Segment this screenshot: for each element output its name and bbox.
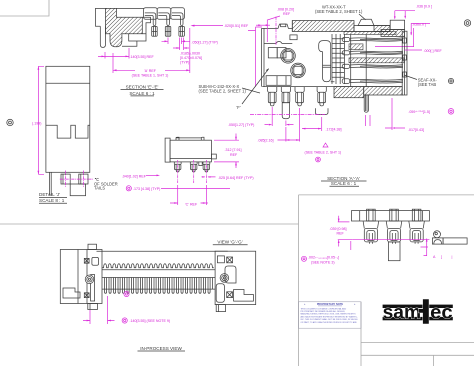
- svg-text:SCALE 6 : 1: SCALE 6 : 1: [129, 91, 155, 96]
- svg-text:.008 [0.20]: .008 [0.20]: [277, 8, 294, 12]
- svg-text:(SEE TABLE 1, SHT 1): (SEE TABLE 1, SHT 1): [132, 74, 169, 78]
- svg-text:(TYP): (TYP): [180, 61, 189, 65]
- svg-text:(.199): (.199): [32, 122, 41, 126]
- svg-text:REF: REF: [283, 12, 291, 16]
- svg-text:.000[ ] REF: .000[ ] REF: [424, 49, 443, 53]
- svg-text:.140[3.55] (SEE NOTE 9): .140[3.55] (SEE NOTE 9): [130, 319, 171, 323]
- svg-text:(SEE TABLE 2, SHT 1): (SEE TABLE 2, SHT 1): [305, 151, 342, 155]
- svg-text:[0.470±0.076]: [0.470±0.076]: [180, 56, 202, 60]
- svg-text:'F': 'F': [237, 105, 241, 110]
- svg-text:MANUFACTURING, REPRODUCTION, U: MANUFACTURING, REPRODUCTION, USE, PATENT…: [301, 313, 357, 316]
- svg-text:REF: REF: [230, 153, 238, 157]
- svg-text:.050[1.27] (TYP): .050[1.27] (TYP): [228, 123, 254, 127]
- svg-text:.025 [0.64] REF (TYP): .025 [0.64] REF (TYP): [218, 176, 254, 180]
- svg-text:(SEE TABLE 2, SHEET 1): (SEE TABLE 2, SHEET 1): [315, 9, 363, 14]
- svg-text:.140[3.55] REF: .140[3.55] REF: [130, 55, 155, 59]
- svg-text:AND SALE RIGHTS ARE EXPRESSLY: AND SALE RIGHTS ARE EXPRESSLY RESERVED B…: [301, 315, 359, 318]
- svg-text:(SEE NOTE 3): (SEE NOTE 3): [311, 260, 335, 264]
- svg-text:.020[0.51] REF: .020[0.51] REF: [224, 24, 249, 28]
- svg-text:INC. THIS DOCUMENT SHALL NOT: INC. THIS DOCUMENT SHALL NOT BE DISCLOSE…: [301, 318, 359, 321]
- svg-text:VIEW 'G'-'G': VIEW 'G'-'G': [217, 240, 242, 245]
- svg-text:TAILS: TAILS: [94, 186, 105, 191]
- svg-text:THIS DOCUMENT CONTAINS CONFIDE: THIS DOCUMENT CONTAINS CONFIDENTIAL AND: [301, 307, 347, 310]
- svg-text:.312 [7.91]: .312 [7.91]: [225, 148, 242, 152]
- svg-text:sam: sam: [383, 302, 422, 323]
- svg-text:(SEE TABLE 2, SHEET 1): (SEE TABLE 2, SHEET 1): [199, 89, 247, 94]
- svg-text:SECTION 'E'-'E': SECTION 'E'-'E': [126, 85, 159, 90]
- svg-text:|: |: [452, 255, 453, 259]
- svg-text:(SEE TAB: (SEE TAB: [418, 82, 437, 87]
- svg-text:.059⁺·⁰⁰⁴[1.5]: .059⁺·⁰⁰⁴[1.5]: [408, 110, 430, 114]
- svg-text:.085[2.16]: .085[2.16]: [258, 138, 274, 142]
- svg-text:.173 [4.38] (TYP): .173 [4.38] (TYP): [133, 187, 160, 191]
- svg-text:PROPRIETARY INFORMATION AND AL: PROPRIETARY INFORMATION AND ALL DESIGN,: [301, 310, 346, 313]
- svg-text:.040[1.02] REF: .040[1.02] REF: [122, 174, 147, 178]
- svg-text:ec: ec: [430, 302, 453, 323]
- svg-text:SCALE 8 : 1: SCALE 8 : 1: [39, 198, 65, 203]
- svg-text:.050[1.27] (TYP): .050[1.27] (TYP): [192, 41, 218, 45]
- svg-text:.036 [0.9 ]: .036 [0.9 ]: [416, 5, 432, 9]
- svg-text:.002₊·₀₀₀₃₃₃[0.05₋₁]: .002₊·₀₀₀₃₃₃[0.05₋₁]: [308, 255, 339, 259]
- svg-text:'C' REF: 'C' REF: [185, 202, 198, 206]
- svg-text:'A' REF: 'A' REF: [144, 69, 157, 73]
- svg-text:SECTION 'A'-'A': SECTION 'A'-'A': [327, 176, 360, 181]
- svg-text:IN-PROCESS VIEW: IN-PROCESS VIEW: [140, 346, 182, 351]
- svg-text:SCALE 6 : 1: SCALE 6 : 1: [331, 181, 357, 186]
- svg-text:.017[0.43]: .017[0.43]: [408, 128, 424, 132]
- svg-text:OR PART, TO ANY UNAUTHORIZED P: OR PART, TO ANY UNAUTHORIZED PERSON OR E…: [301, 321, 358, 324]
- svg-text:[: [: [441, 255, 442, 259]
- svg-text:REF: REF: [337, 231, 345, 235]
- svg-text:.036±.0 ]: .036±.0 ]: [412, 23, 426, 27]
- svg-text:.172[4.38]: .172[4.38]: [326, 128, 342, 132]
- svg-text:DETAIL 'J': DETAIL 'J': [39, 192, 60, 197]
- svg-text:PROPRIETARY NOTE: PROPRIETARY NOTE: [317, 302, 344, 306]
